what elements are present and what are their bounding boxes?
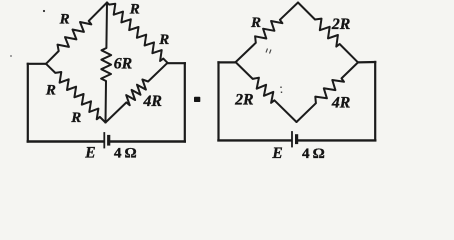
wire bottom-left segment of left circuit <box>28 140 104 142</box>
wire from left edge to left node (right circuit) <box>219 61 236 63</box>
wire right edge of right circuit <box>374 62 376 140</box>
resistor R (upper-left arm, right circuit) <box>236 3 298 63</box>
svg-text:4R: 4R <box>142 93 161 110</box>
speckle ditto marks below R (right circuit) <box>266 49 271 54</box>
equivalence marker (solid square) <box>194 97 200 102</box>
speckle dot left margin <box>10 55 12 57</box>
wire right edge of left circuit <box>184 63 186 141</box>
resistor 2R (upper-right arm, right circuit) <box>298 3 358 63</box>
battery E left circuit: short plate <box>107 137 110 145</box>
wire left edge of left circuit <box>27 64 29 142</box>
speckle colon artifact (right circuit) <box>280 87 283 94</box>
svg-text:E: E <box>84 144 95 161</box>
wire bottom-right segment of right circuit <box>298 139 375 141</box>
svg-text:R: R <box>70 110 81 126</box>
svg-text:R: R <box>158 32 169 48</box>
wire from right node to right edge (right circuit) <box>358 61 375 64</box>
wire left edge of right circuit <box>217 62 219 140</box>
svg-text:E: E <box>271 145 282 162</box>
battery E right circuit: long plate <box>291 132 293 147</box>
svg-text:R: R <box>250 15 261 31</box>
svg-text:6R: 6R <box>114 56 132 73</box>
svg-text:4 Ω: 4 Ω <box>114 144 137 161</box>
resistor 2R (lower-left arm, right circuit) <box>236 62 297 122</box>
wire bottom-left segment of right circuit <box>219 139 292 141</box>
resistor 6R (centre vertical arm, left circuit) <box>101 3 111 123</box>
battery E left circuit: long plate <box>103 133 105 148</box>
svg-text:R: R <box>129 2 140 18</box>
resistor R (upper-left arm, left circuit) <box>46 3 107 64</box>
wire from right node to right edge (left circuit) <box>168 62 185 64</box>
wire bottom-right segment of left circuit <box>110 140 185 142</box>
svg-text:2R: 2R <box>331 16 350 33</box>
svg-text:4 Ω: 4 Ω <box>302 145 325 162</box>
svg-text:4R: 4R <box>331 94 350 111</box>
svg-text:R: R <box>45 82 56 98</box>
resistor R-R (lower-left arm, left circuit) <box>46 64 106 123</box>
svg-text:R: R <box>59 12 70 28</box>
speckle dot near upper-left R <box>43 10 45 12</box>
resistor 4R (lower-right arm, left circuit) <box>106 63 168 123</box>
resistor 4R (lower-right arm, right circuit) <box>297 62 359 122</box>
battery E right circuit: short plate <box>295 136 298 143</box>
resistor R-R (upper-right arm, left circuit) <box>107 3 168 63</box>
wire from left edge to left node (left circuit) <box>28 63 46 65</box>
svg-text:2R: 2R <box>234 92 253 109</box>
